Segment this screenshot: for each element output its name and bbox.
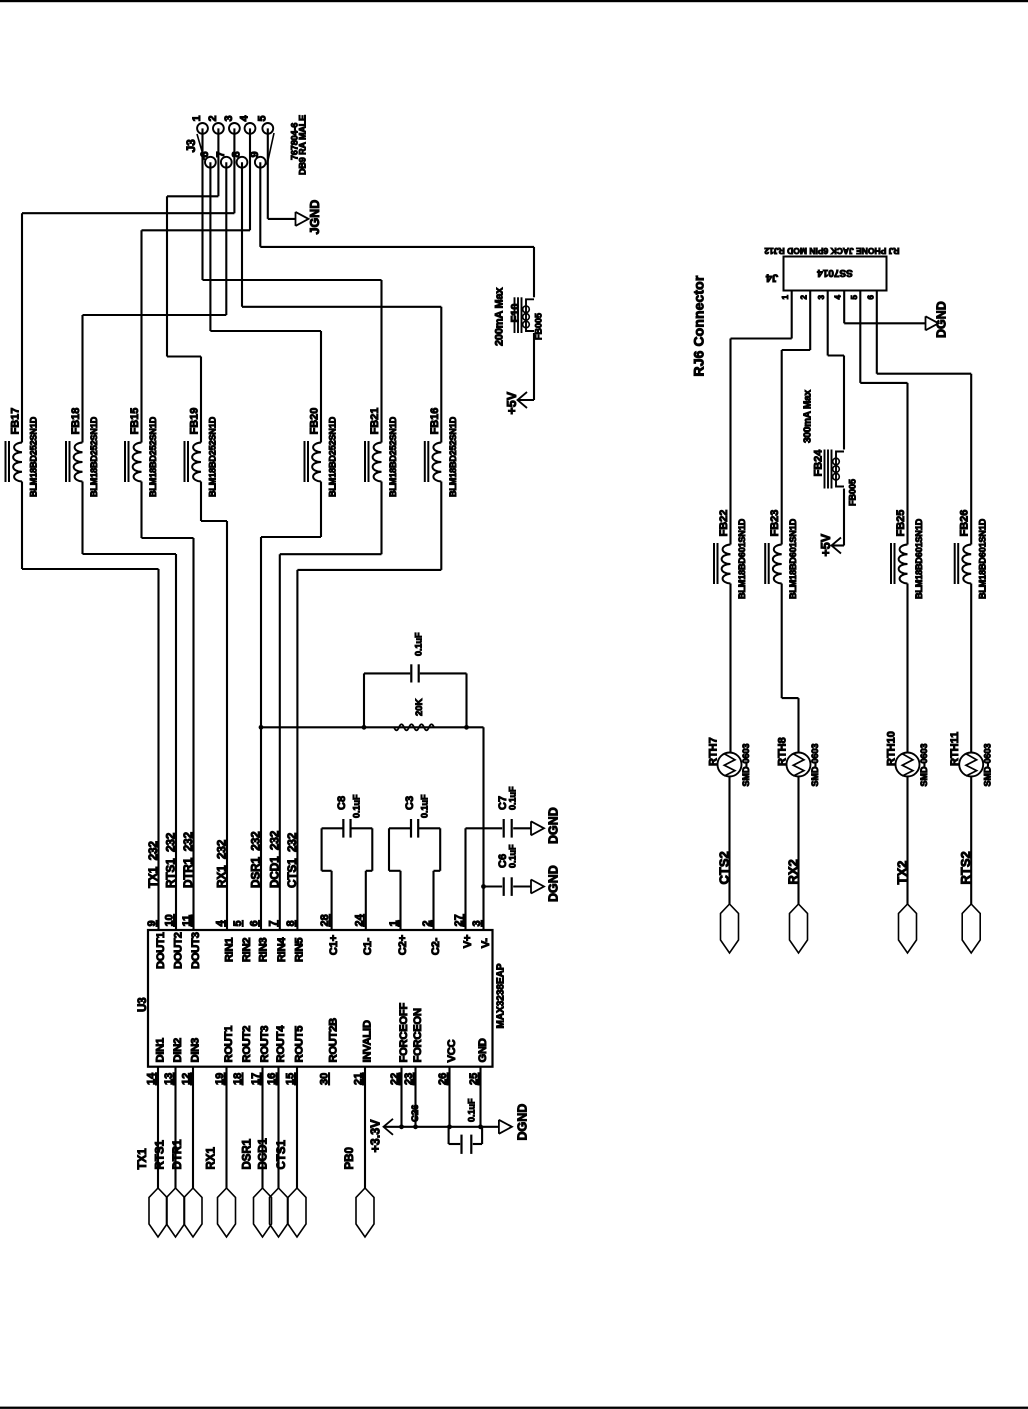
svg-text:C1-: C1-	[362, 937, 374, 955]
svg-text:RTH11: RTH11	[949, 732, 961, 766]
svg-text:13: 13	[163, 1073, 175, 1085]
svg-text:+5V: +5V	[505, 391, 519, 414]
ferrite bead FB16	[432, 443, 441, 482]
svg-text:RTS1: RTS1	[155, 1140, 167, 1170]
wire U3 pin27 V+	[464, 828, 466, 930]
wire FB21 to U3 pin7	[380, 482, 382, 555]
svg-text:RTS1_232: RTS1_232	[164, 832, 178, 888]
wire U3 to tag RX1	[225, 1067, 227, 1188]
wire TX2	[906, 777, 908, 905]
svg-text:INVALID: INVALID	[361, 1020, 373, 1062]
svg-text:+3.3V: +3.3V	[369, 1119, 383, 1153]
wire CTS2	[728, 777, 730, 905]
ferrite bead FB25	[899, 545, 908, 584]
tag DCD1	[270, 1188, 288, 1237]
svg-text:TX1: TX1	[137, 1148, 149, 1170]
svg-text:J3: J3	[184, 139, 198, 153]
svg-text:DB9 RA MALE: DB9 RA MALE	[298, 115, 308, 175]
tag TX2	[899, 904, 917, 953]
svg-text:10: 10	[164, 914, 176, 926]
svg-text:200mA Max: 200mA Max	[494, 287, 506, 346]
svg-text:1: 1	[388, 920, 400, 926]
tag CTS2	[721, 904, 739, 953]
svg-text:SMD-0603: SMD-0603	[919, 743, 929, 786]
svg-text:ROUT4: ROUT4	[275, 1025, 287, 1063]
wire U3 to tag DTR1	[192, 1067, 194, 1188]
svg-text:5: 5	[850, 295, 859, 300]
svg-text:RJ PHONE JACK 6PIN MOD RJ12: RJ PHONE JACK 6PIN MOD RJ12	[764, 246, 899, 256]
svg-text:4: 4	[239, 115, 251, 122]
svg-text:BLM18BD601SN1D: BLM18BD601SN1D	[914, 518, 924, 599]
svg-text:1: 1	[191, 115, 203, 121]
tag DSR1	[254, 1188, 272, 1237]
thermistor RTH10	[896, 753, 920, 777]
svg-text:RX1: RX1	[206, 1147, 218, 1170]
svg-text:8: 8	[231, 151, 243, 157]
svg-text:RX1_232: RX1_232	[215, 839, 229, 888]
ferrite bead FB17	[13, 443, 22, 482]
connector J4 RJ jack body	[784, 257, 887, 291]
svg-text:3: 3	[223, 115, 235, 121]
svg-text:27: 27	[453, 914, 465, 926]
svg-text:C1+: C1+	[328, 934, 340, 955]
junction	[259, 725, 264, 730]
ground symbol DGND	[530, 821, 532, 835]
wire J4 pin4 to DGND	[843, 291, 845, 324]
svg-text:22: 22	[389, 1073, 401, 1085]
svg-text:C3: C3	[404, 796, 416, 810]
svg-text:RIN4: RIN4	[276, 937, 288, 963]
svg-text:TX2: TX2	[895, 861, 910, 885]
capacitor C6	[484, 885, 503, 887]
page bottom border	[0, 1407, 1028, 1409]
svg-text:FB19: FB19	[189, 408, 201, 435]
wire U3 to tag RTS1	[174, 1067, 176, 1188]
svg-text:FORCEOFF: FORCEOFF	[398, 1003, 410, 1063]
svg-text:FB15: FB15	[129, 408, 141, 435]
tag RTS2	[962, 904, 980, 953]
svg-text:2: 2	[421, 920, 433, 926]
ground symbol DGND	[530, 880, 532, 894]
wire RTS2	[970, 777, 972, 905]
svg-text:DOUT2: DOUT2	[172, 932, 184, 969]
svg-text:DOUT3: DOUT3	[190, 932, 202, 969]
svg-text:26: 26	[437, 1073, 449, 1085]
wire FB19 to U3 pin4	[200, 482, 202, 522]
svg-text:SS7014: SS7014	[817, 267, 853, 278]
svg-text:MAX3238EAP: MAX3238EAP	[496, 963, 507, 1028]
wire DB9 pin7 to FB18	[225, 162, 227, 315]
svg-text:6: 6	[249, 920, 261, 926]
svg-text:6: 6	[199, 151, 211, 157]
svg-text:DGND: DGND	[935, 301, 949, 338]
svg-text:GND: GND	[477, 1038, 489, 1062]
svg-text:SMD-0603: SMD-0603	[983, 743, 993, 786]
svg-text:ROUT2: ROUT2	[241, 1026, 253, 1063]
wire J4 pin2 to FB23	[809, 291, 811, 350]
svg-text:C2-: C2-	[430, 937, 442, 955]
svg-text:BLM18BD601SN1D: BLM18BD601SN1D	[788, 518, 798, 599]
wire U3 to tag CTS1	[296, 1067, 298, 1188]
wire FB23 to RTH8	[781, 584, 783, 699]
svg-text:0.1uF: 0.1uF	[420, 794, 430, 818]
svg-text:PB0: PB0	[344, 1147, 356, 1169]
svg-text:3: 3	[471, 920, 483, 926]
svg-text:15: 15	[285, 1073, 297, 1085]
svg-text:DCD1: DCD1	[258, 1138, 270, 1170]
wire J4 pin1 to FB22	[791, 291, 793, 339]
ground symbol DGND	[925, 316, 927, 330]
svg-text:ROUT1: ROUT1	[223, 1026, 235, 1063]
svg-text:RJ6 Connector: RJ6 Connector	[691, 275, 707, 376]
wire DB9 pin4 to FB15	[249, 128, 251, 230]
tag DTR1	[184, 1188, 202, 1237]
U3 IC body	[148, 930, 493, 1067]
svg-text:CTS1: CTS1	[276, 1140, 288, 1170]
svg-text:3: 3	[817, 295, 826, 300]
svg-text:ROUT5: ROUT5	[293, 1026, 305, 1063]
svg-text:J4: J4	[765, 272, 778, 284]
wire J4 pin5 to FB25	[859, 291, 861, 383]
wire DB9 pin3 to FB17	[233, 128, 235, 213]
ferrite bead FB20	[312, 443, 321, 482]
svg-text:DTR1_232: DTR1_232	[181, 832, 195, 888]
svg-text:FB16: FB16	[429, 408, 441, 435]
wire DB9 pin8 to FB16	[241, 162, 243, 307]
thermistor RTH8	[787, 753, 811, 777]
wire FB16 to U3 pin8	[440, 482, 442, 570]
svg-text:BLM18BD252SN1D: BLM18BD252SN1D	[89, 416, 99, 497]
wire U3 to tag PB0	[364, 1067, 366, 1188]
svg-text:RIN2: RIN2	[241, 938, 253, 963]
svg-text:16: 16	[266, 1073, 278, 1085]
svg-text:1: 1	[781, 295, 790, 300]
svg-text:F10: F10	[510, 304, 522, 323]
svg-text:30: 30	[319, 1073, 331, 1085]
svg-text:0.1uF: 0.1uF	[414, 632, 424, 656]
svg-text:11: 11	[181, 915, 193, 927]
svg-text:CTS2: CTS2	[717, 851, 732, 884]
wire FB24 to +5V	[843, 489, 845, 546]
svg-text:FORCEON: FORCEON	[412, 1008, 424, 1062]
svg-text:VCC: VCC	[446, 1039, 458, 1062]
svg-text:U3: U3	[137, 997, 149, 1012]
junction	[481, 884, 486, 889]
svg-text:V+: V+	[462, 934, 474, 948]
wire DB9 pin9 to fuse F10	[259, 162, 261, 247]
svg-text:2: 2	[207, 115, 219, 121]
wire J4 pin3 to fuse FB24	[827, 291, 829, 356]
svg-text:DTR1: DTR1	[172, 1139, 184, 1170]
power symbol +3.3V	[384, 1119, 394, 1135]
wire FB15 to U3 pin11	[140, 482, 142, 539]
wire U3 to tag DSR1	[261, 1067, 263, 1188]
svg-text:28: 28	[319, 914, 331, 926]
wire FB25 to RTH10	[906, 584, 908, 753]
svg-text:6: 6	[866, 295, 875, 300]
svg-text:24: 24	[353, 913, 365, 926]
thermistor RTH7	[718, 753, 742, 777]
svg-text:7: 7	[215, 151, 227, 157]
svg-text:2: 2	[800, 295, 809, 300]
wire FB22 to RTH7	[729, 584, 731, 753]
svg-text:21: 21	[353, 1073, 365, 1085]
wire FORCEOFF FORCEON VCC GND rail	[400, 1067, 402, 1127]
capacitor C3	[399, 871, 401, 930]
connector J3 DB9 pins 1-5	[197, 123, 208, 134]
resistor 20K	[394, 724, 434, 730]
wire U3 to tag DCD1	[277, 1067, 279, 1188]
svg-text:0.1uF: 0.1uF	[508, 786, 518, 810]
junction	[399, 1124, 404, 1129]
svg-text:FB17: FB17	[10, 408, 22, 435]
svg-text:0.1uF: 0.1uF	[352, 794, 362, 818]
svg-text:ROUT3: ROUT3	[259, 1026, 271, 1063]
svg-text:+5V: +5V	[819, 533, 833, 556]
svg-text:C26: C26	[410, 1105, 421, 1122]
svg-text:DSR1: DSR1	[242, 1138, 254, 1169]
capacitor C26	[448, 1127, 450, 1144]
svg-text:BLM18BD601SN1D: BLM18BD601SN1D	[737, 518, 747, 599]
svg-text:FB23: FB23	[769, 510, 781, 537]
svg-text:FB24: FB24	[813, 449, 825, 477]
svg-text:SMD-0603: SMD-0603	[810, 743, 820, 786]
svg-text:RTH7: RTH7	[708, 737, 720, 766]
svg-text:FB18: FB18	[70, 408, 82, 435]
svg-text:DOUT1: DOUT1	[155, 932, 167, 969]
svg-text:TX1_232: TX1_232	[146, 841, 160, 888]
svg-text:FB25: FB25	[895, 510, 907, 537]
svg-text:23: 23	[403, 1073, 415, 1085]
ferrite bead FB26	[962, 545, 971, 584]
svg-text:BLM18BD252SN1D: BLM18BD252SN1D	[208, 416, 218, 497]
wire FB18 to U3 pin10	[81, 482, 83, 555]
power symbol +5V	[518, 392, 528, 408]
svg-text:RIN1: RIN1	[223, 938, 235, 963]
svg-text:0.1uF: 0.1uF	[508, 844, 518, 868]
tag PB0	[356, 1188, 374, 1237]
ferrite bead FB22	[722, 545, 731, 584]
svg-text:0.1uF: 0.1uF	[467, 1098, 477, 1122]
svg-text:8: 8	[285, 920, 297, 926]
svg-text:RTH10: RTH10	[886, 731, 898, 766]
svg-text:RIN5: RIN5	[294, 938, 306, 963]
ferrite bead FB23	[773, 545, 782, 584]
fuse F10	[514, 297, 516, 333]
svg-text:FB005: FB005	[848, 479, 858, 506]
svg-text:300mA Max: 300mA Max	[803, 390, 814, 443]
svg-text:12: 12	[181, 1073, 193, 1085]
wire fuse to +5V	[533, 333, 535, 400]
svg-text:C8: C8	[336, 796, 348, 810]
ground symbol DGND	[498, 1120, 500, 1134]
capacitor 0.1uF parallel	[363, 673, 365, 727]
capacitor C7	[466, 827, 503, 829]
svg-text:BLM18BD601SN1D: BLM18BD601SN1D	[978, 518, 988, 599]
svg-text:SMD-0603: SMD-0603	[741, 743, 751, 786]
svg-text:DGND: DGND	[547, 865, 561, 902]
ferrite bead FB18	[74, 443, 83, 482]
ferrite bead FB15	[133, 443, 142, 482]
wire FB17 to U3 pin9	[21, 482, 23, 570]
tag RX2	[790, 904, 808, 953]
wire DB9 pin2 to FB19	[217, 128, 219, 196]
svg-text:5: 5	[232, 920, 244, 926]
power symbol +5V	[832, 538, 842, 554]
fuse FB24	[824, 450, 826, 489]
svg-text:14: 14	[146, 1072, 158, 1085]
svg-text:BLM18BD252SN1D: BLM18BD252SN1D	[388, 416, 398, 497]
wire FB26 to RTH11	[970, 584, 972, 753]
wire J4 pin6 to FB26	[876, 291, 878, 374]
svg-text:DIN3: DIN3	[189, 1038, 201, 1063]
svg-text:BLM18BD252SN1D: BLM18BD252SN1D	[448, 416, 458, 497]
connector J3 DB9 pins 6-9	[205, 157, 216, 168]
svg-text:BLM18BD252SN1D: BLM18BD252SN1D	[29, 416, 39, 497]
svg-text:FB21: FB21	[369, 408, 381, 435]
wire DB9 pin5 to JGND	[267, 128, 269, 219]
svg-text:DSR1_232: DSR1_232	[249, 831, 263, 888]
wire U3 to tag TX1	[157, 1067, 159, 1188]
svg-text:19: 19	[214, 1073, 226, 1085]
svg-text:7: 7	[267, 920, 279, 926]
thermistor RTH11	[959, 753, 983, 777]
page top border	[0, 0, 1028, 2]
ferrite bead FB21	[373, 443, 382, 482]
svg-text:RX2: RX2	[786, 859, 801, 884]
svg-text:DIN2: DIN2	[172, 1038, 184, 1063]
svg-text:DGND: DGND	[516, 1104, 530, 1141]
svg-text:BLM18BD252SN1D: BLM18BD252SN1D	[328, 416, 338, 497]
wire DB9 pin6 to FB20	[209, 162, 211, 331]
svg-text:CTS1_232: CTS1_232	[285, 832, 299, 888]
svg-text:4: 4	[834, 295, 843, 300]
svg-text:JGND: JGND	[308, 200, 322, 235]
svg-text:18: 18	[232, 1073, 244, 1085]
ground symbol JGND	[295, 212, 297, 226]
capacitor C8	[331, 871, 333, 930]
svg-text:FB20: FB20	[309, 408, 321, 435]
wire RX2	[797, 777, 799, 905]
svg-text:V-: V-	[480, 938, 492, 949]
connector J3 outline	[197, 134, 205, 160]
svg-text:4: 4	[215, 920, 227, 927]
tag CTS1	[288, 1188, 306, 1237]
svg-text:RTH8: RTH8	[777, 737, 789, 766]
tag TX1	[149, 1188, 167, 1237]
svg-text:DGND: DGND	[547, 807, 561, 844]
svg-text:ROUT2B: ROUT2B	[327, 1018, 339, 1063]
svg-text:DCD1_232: DCD1_232	[267, 830, 281, 888]
svg-text:BLM18BD252SN1D: BLM18BD252SN1D	[148, 416, 158, 497]
svg-text:25: 25	[468, 1073, 480, 1085]
svg-text:FB22: FB22	[718, 510, 730, 537]
wire FB20 to U3 pin6	[320, 482, 322, 538]
svg-text:17: 17	[250, 1073, 262, 1085]
svg-text:9: 9	[146, 920, 158, 926]
wire DB9 pin1 to FB21	[201, 128, 203, 280]
ferrite bead FB19	[192, 443, 201, 482]
tag RTS1	[167, 1188, 185, 1237]
svg-text:RTS2: RTS2	[958, 851, 973, 884]
svg-text:C2+: C2+	[397, 934, 409, 955]
svg-text:RIN3: RIN3	[257, 938, 269, 963]
svg-text:DIN1: DIN1	[154, 1038, 166, 1063]
svg-text:20K: 20K	[414, 698, 425, 716]
wire V- net	[261, 726, 484, 728]
tag RX1	[218, 1188, 236, 1237]
svg-text:5: 5	[256, 115, 268, 121]
svg-text:FB26: FB26	[959, 510, 971, 537]
